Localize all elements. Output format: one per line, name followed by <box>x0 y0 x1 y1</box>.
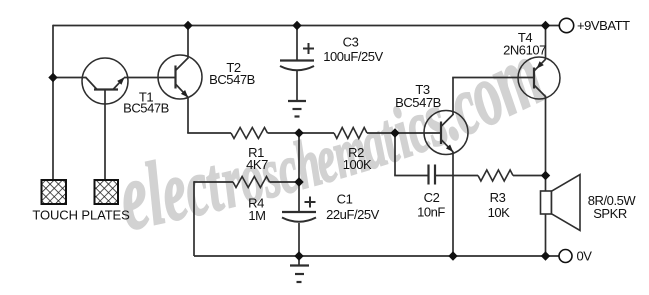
junction R1-R2 / C1 branch <box>294 128 303 137</box>
label 0V <box>577 249 593 264</box>
wire T2 collector to top rail <box>187 26 189 58</box>
wire R4 node down to C1 <box>298 182 300 212</box>
svg-text:1M: 1M <box>248 208 265 223</box>
svg-text:22uF/25V: 22uF/25V <box>326 207 380 222</box>
watermark electroschematics.com <box>110 20 558 251</box>
wire C3 top lead <box>296 26 298 61</box>
svg-text:C2: C2 <box>424 190 440 205</box>
transistor T4 emitter with arrow (PNP) <box>534 59 546 71</box>
label T2 <box>209 60 255 87</box>
junction top rail / T2 collector <box>183 21 192 30</box>
transistor T2 base bar <box>174 66 176 89</box>
wire T3 collector to T4 base <box>452 78 534 115</box>
label C1 <box>326 191 380 222</box>
svg-text:+9VBATT: +9VBATT <box>577 18 630 33</box>
wire node to R2 <box>299 132 334 134</box>
svg-text:10nF: 10nF <box>417 204 445 219</box>
transistor T3 circle <box>424 111 468 155</box>
svg-text:TOUCH PLATES: TOUCH PLATES <box>32 208 130 223</box>
wire R1 to node <box>268 132 300 134</box>
svg-text:C3: C3 <box>343 35 359 50</box>
junction left rail / T1 collector <box>48 73 57 82</box>
svg-text:0V: 0V <box>577 249 593 264</box>
junction bottom rail / T3 emitter <box>448 251 457 260</box>
label R1 <box>246 145 268 172</box>
wire T4 emitter to top rail <box>545 26 547 60</box>
wire C2 to R3 <box>436 175 479 177</box>
wire R4 right lead <box>270 181 300 183</box>
transistor T2 circle <box>158 55 202 99</box>
capacitor C1 plates <box>282 212 316 222</box>
svg-text:2N6107: 2N6107 <box>503 43 546 58</box>
transistor T3 collector <box>441 114 454 127</box>
transistor T4 circle <box>518 57 560 99</box>
speaker cone <box>552 175 581 231</box>
wire T3 emitter to bottom rail <box>452 152 454 257</box>
resistor R4 <box>233 177 270 188</box>
wire R3 to speaker column <box>513 175 546 177</box>
capacitor C3 plates <box>280 61 314 71</box>
svg-text:100uF/25V: 100uF/25V <box>323 49 383 64</box>
label speaker 8R/0.5W SPKR <box>588 193 637 221</box>
label +9VBATT <box>577 18 630 33</box>
terminal +9VBATT <box>559 18 573 32</box>
speaker driver rectangle <box>541 191 552 214</box>
junction R3 / speaker column <box>541 171 550 180</box>
svg-text:BC547B: BC547B <box>209 72 255 87</box>
label R2 <box>343 145 372 172</box>
junction bottom rail / speaker <box>541 251 550 260</box>
label R4 <box>248 196 265 223</box>
wire left rail (top corner down to touch plate 1) <box>52 25 54 180</box>
transistor T1 emitter with arrow <box>113 77 125 89</box>
svg-text:BC547B: BC547B <box>123 101 169 116</box>
capacitor C3 plus sign <box>303 43 314 54</box>
svg-text:4K7: 4K7 <box>246 157 268 172</box>
svg-text:BC547B: BC547B <box>395 95 441 110</box>
wire T1 base down to touch plate 2 <box>104 90 106 181</box>
resistor R2 <box>334 128 367 139</box>
wire T1 collector to left rail <box>53 77 97 90</box>
svg-text:10K: 10K <box>488 205 511 220</box>
transistor T4 base bar <box>533 68 535 89</box>
wire T4 collector down through speaker to bottom rail <box>545 96 547 256</box>
terminal 0V <box>559 250 572 263</box>
transistor T1 base bar <box>94 88 118 90</box>
ground below bottom rail <box>290 256 309 282</box>
label C3 <box>323 35 383 64</box>
svg-text:C1: C1 <box>337 191 353 206</box>
wire R4 left lead <box>194 181 233 183</box>
junction top rail / T4 emitter <box>541 21 550 30</box>
touch plate 2 <box>95 180 119 204</box>
wire node down to R4 node <box>298 133 300 182</box>
capacitor C1 plus sign <box>305 197 316 208</box>
junction R4 / C1 <box>294 177 303 186</box>
transistor T2 emitter with arrow <box>176 84 189 98</box>
label T3 <box>395 82 441 110</box>
transistor T1 circle <box>82 58 128 104</box>
svg-text:SPKR: SPKR <box>593 206 627 221</box>
svg-text:R3: R3 <box>490 190 506 205</box>
wire top +9V rail <box>53 25 560 27</box>
junction bottom rail / C1 ground <box>294 251 303 260</box>
wire C3 bottom lead <box>296 71 298 101</box>
wire bottom 0V rail <box>194 255 560 257</box>
label R3 <box>488 190 511 220</box>
transistor T3 base bar <box>440 122 442 145</box>
transistor T4 collector <box>534 85 546 97</box>
ground below C3 <box>288 101 306 117</box>
label T4 <box>503 30 546 58</box>
label T1 <box>123 90 169 116</box>
wire T3 base lead <box>395 132 441 134</box>
resistor R1 <box>231 128 268 139</box>
wire C1 bottom lead <box>298 223 300 256</box>
wire T3 base node down to C2 <box>394 133 428 176</box>
wire T1 emitter to T2 base <box>124 77 176 79</box>
transistor T2 collector <box>176 58 189 71</box>
touch plate 1 <box>42 180 67 204</box>
capacitor C2 plates <box>429 165 436 185</box>
junction R2 / T3 base / C2 branch <box>390 128 399 137</box>
svg-text:100K: 100K <box>343 157 372 172</box>
transistor T3 emitter with arrow <box>441 140 453 153</box>
wire R2 to T3 base node <box>367 132 395 134</box>
junction top rail / C3 <box>292 21 301 30</box>
label C2 <box>417 190 445 219</box>
label TOUCH PLATES <box>32 208 130 223</box>
wire R4 branch vertical <box>193 181 195 256</box>
resistor R3 <box>478 170 513 181</box>
wire T2 emitter down to R1 <box>187 97 231 133</box>
